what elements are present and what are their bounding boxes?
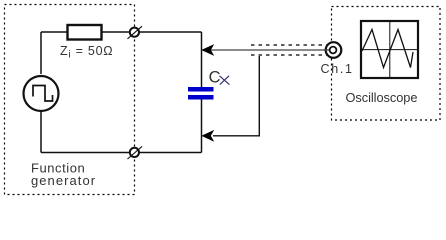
- svg-text:C: C: [209, 68, 221, 86]
- svg-text:Oscilloscope: Oscilloscope: [346, 90, 418, 105]
- svg-text:Ch.1: Ch.1: [321, 62, 354, 76]
- svg-text:Zi = 50Ω: Zi = 50Ω: [60, 44, 113, 60]
- svg-text:generator: generator: [31, 173, 96, 188]
